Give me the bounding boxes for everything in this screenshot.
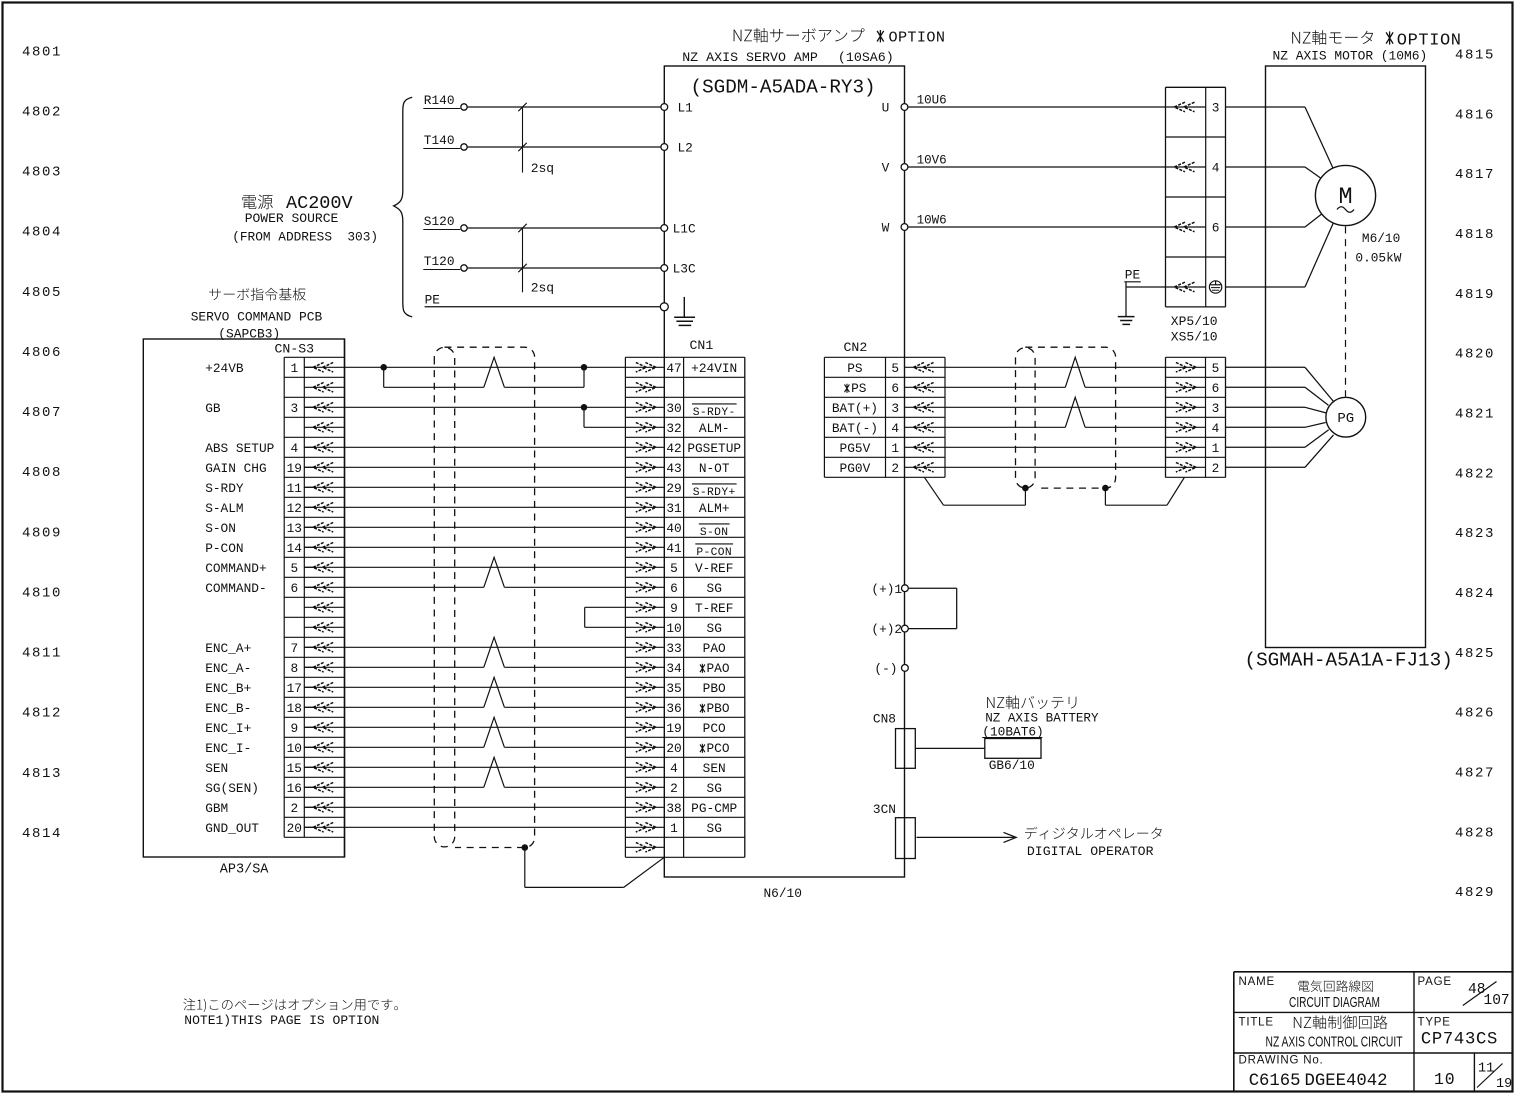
twisted pair marks right cable [1065,357,1085,387]
svg-text:4810: 4810 [22,586,62,602]
XP5 PE pin (earth symbol) [1209,281,1221,293]
CN1 arrow row 5 [636,443,656,453]
cable shield right (dashed stadium) [1016,348,1036,488]
svg-text:2: 2 [290,801,298,816]
CN-S3 arrow row 20 [313,743,333,753]
ground symbol right of amp [1125,282,1127,317]
shield wire to CN2 shell [1024,488,1026,505]
svg-text:10: 10 [1434,1070,1455,1089]
svg-text:4827: 4827 [1455,766,1495,782]
svg-text:+24VIN: +24VIN [691,361,737,376]
svg-text:POWER SOURCE: POWER SOURCE [245,211,339,226]
junction dot GB/ALM- [581,404,588,411]
CN-S3 arrow row 12 [313,583,333,593]
svg-text:107: 107 [1484,993,1510,1009]
svg-text:SERVO COMMAND PCB: SERVO COMMAND PCB [191,309,323,324]
svg-text:41: 41 [666,541,682,556]
wire 10W6 amp to XP5 [908,226,1206,228]
svg-text:5: 5 [891,361,899,376]
svg-text:4806: 4806 [22,345,62,361]
CN-S3 arrow row 14 [313,623,333,633]
svg-text:OPTION: OPTION [1397,31,1462,50]
svg-text:3: 3 [1212,101,1220,116]
amp terminal L1 [661,104,668,111]
svg-text:PE: PE [1125,268,1141,283]
svg-text:4829: 4829 [1455,885,1495,901]
svg-text:CIRCUIT DIAGRAM: CIRCUIT DIAGRAM [1289,994,1380,1011]
wire S-ALM CN-S3 to CN1 [304,506,664,508]
svg-text:PBO: PBO [707,701,730,716]
wire ALM- branch from GB [583,407,585,427]
CN1 arrow row 9 [636,523,656,533]
svg-text:2: 2 [891,461,899,476]
XP5 arrow pin 6 [1174,222,1194,232]
row labels 4801-4814 left margin [22,44,62,842]
wire PE to XP5 [1126,286,1206,288]
wire ENC_I+ CN-S3 to CN1 [304,726,664,728]
svg-text:29: 29 [666,481,681,496]
svg-text:W: W [882,221,890,236]
svg-text:L2: L2 [678,141,693,156]
svg-text:PAO: PAO [703,641,726,656]
power terminal R140 [461,104,467,110]
svg-text:6: 6 [1212,381,1220,396]
wire ENC_B- CN-S3 to CN1 [304,706,484,708]
XP5 arrow PE [1174,282,1194,292]
svg-text:SEN: SEN [205,761,228,776]
svg-text:4818: 4818 [1455,227,1495,243]
svg-text:4814: 4814 [22,826,62,842]
title block JP: circuit diagram [1298,980,1373,992]
svg-text:(+)1: (+)1 [871,582,902,597]
wire S-ON CN-S3 to CN1 [304,526,664,528]
note JP: this page is option [183,998,398,1012]
terminal block PG side [1165,357,1167,477]
PG block arrow row 5 [1176,443,1196,453]
svg-text:18: 18 [287,701,302,716]
svg-text:4: 4 [290,441,298,456]
shield junction dot left cable [522,844,529,851]
terminal block XP5/XS5 [1166,86,1226,88]
svg-text:P-CON: P-CON [696,547,732,559]
wire PG block pin 6 to PG [1226,386,1306,388]
title block [1234,971,1514,973]
svg-text:NOTE1)THIS PAGE IS OPTION: NOTE1)THIS PAGE IS OPTION [184,1013,379,1028]
svg-text:20: 20 [666,741,681,756]
wire S-RDY CN-S3 to CN1 [304,486,664,488]
svg-text:C6165: C6165 [1249,1072,1301,1091]
svg-text:ALM-: ALM- [699,421,730,436]
svg-text:ENC_I-: ENC_I- [205,741,251,756]
svg-text:NAME: NAME [1239,976,1275,988]
CN1 arrow row 15 [636,643,656,653]
wire SG(SEN) CN-S3 to CN1 [304,786,484,788]
PG block arrow row 2 [1176,383,1196,393]
wire COMMAND- CN-S3 to CN1 [304,586,484,588]
svg-text:4808: 4808 [22,465,62,481]
svg-text:34: 34 [666,661,682,676]
svg-text:PCO: PCO [707,741,730,756]
svg-text:5: 5 [670,561,678,576]
svg-text:16: 16 [287,781,302,796]
wire +24V bypass row2 [383,367,385,387]
svg-text:1: 1 [290,361,298,376]
wire +24VB CN-S3 to CN1 [304,366,664,368]
svg-text:PAGE: PAGE [1418,976,1452,988]
svg-text:1: 1 [891,441,899,456]
svg-text:3: 3 [1212,401,1220,416]
svg-text:COMMAND-: COMMAND- [205,581,266,596]
CN-S3 arrow row 10 [313,543,333,553]
battery wire CN8 to battery [915,747,985,749]
svg-text:4824: 4824 [1455,586,1495,602]
cable size mark 2sq (upper) [522,107,524,173]
CN-S3 arrow row 23 [313,803,333,813]
svg-text:NZ AXIS MOTOR (10M6): NZ AXIS MOTOR (10M6) [1273,49,1428,64]
svg-text:4811: 4811 [22,646,62,662]
svg-text:5: 5 [1212,361,1220,376]
svg-text:L1: L1 [678,101,694,116]
svg-text:13: 13 [287,521,302,536]
svg-text:7: 7 [290,641,298,656]
svg-text:6: 6 [891,381,899,396]
wire P-CON CN-S3 to CN1 [304,546,664,548]
svg-text:R140: R140 [424,93,455,108]
svg-text:TITLE: TITLE [1239,1016,1274,1028]
CN-S3 arrow row 19 [313,723,333,733]
wire ENC_A- CN-S3 to CN1 [304,666,484,668]
svg-text:SG(SEN): SG(SEN) [205,781,259,796]
svg-text:TYPE: TYPE [1418,1016,1451,1028]
CN-S3 arrow row 22 [313,783,333,793]
amp terminal (+)2 [902,625,909,632]
CN1 arrow row 20 [636,743,656,753]
amp terminal L1C [661,225,668,232]
svg-text:2: 2 [670,781,678,796]
svg-text:PS: PS [847,361,863,376]
wire 10V6 amp to XP5 [908,166,1206,168]
svg-text:47: 47 [666,361,681,376]
svg-text:DRAWING No.: DRAWING No. [1239,1054,1324,1066]
svg-text:6: 6 [670,581,678,596]
power terminal T120 [461,265,467,271]
svg-text:20: 20 [287,821,302,836]
svg-text:NZ AXIS CONTROL CIRCUIT: NZ AXIS CONTROL CIRCUIT [1266,1034,1403,1050]
svg-text:10: 10 [287,741,302,756]
CN1 arrow row 18 [636,703,656,713]
svg-text:1: 1 [670,821,678,836]
svg-text:10U6: 10U6 [917,94,947,108]
svg-text:GND_OUT: GND_OUT [205,821,259,836]
wire ABS SETUP CN-S3 to CN1 [304,446,664,448]
svg-text:4817: 4817 [1455,167,1495,183]
svg-text:S-ALM: S-ALM [205,501,243,516]
CN1 arrow row 23 [636,803,656,813]
svg-text:4: 4 [670,761,678,776]
svg-text:PG0V: PG0V [840,461,871,476]
svg-text:4813: 4813 [22,766,62,782]
svg-text:T120: T120 [424,254,455,269]
svg-text:GB6/10: GB6/10 [989,758,1035,773]
PG block arrow row 3 [1176,403,1196,413]
CN2 signal *PS pin 6 [845,384,850,393]
CN1 arrow row 2 [636,383,656,393]
svg-text:19: 19 [1496,1077,1512,1092]
amp terminal V [901,164,908,171]
dashed link motor to PG [1345,227,1347,397]
CN-S3 arrow row 13 [313,603,333,613]
svg-text:S-ON: S-ON [700,527,729,539]
svg-text:PG: PG [1337,411,1354,427]
svg-text:T140: T140 [424,133,455,148]
jumper T-REF to SG [585,606,665,608]
svg-text:4820: 4820 [1455,347,1495,363]
svg-text:3: 3 [891,401,899,416]
wire PS CN2 to XS5 [905,366,1206,368]
svg-text:2: 2 [1212,461,1220,476]
svg-text:SG: SG [707,581,722,596]
PG block arrow row 6 [1176,463,1196,473]
svg-text:GAIN CHG: GAIN CHG [205,461,266,476]
svg-text:ENC_I+: ENC_I+ [205,721,251,736]
wire GBM CN-S3 to CN1 [304,806,664,808]
svg-text:XP5/10: XP5/10 [1171,314,1218,329]
svg-text:4825: 4825 [1455,646,1495,662]
PG block arrow row 4 [1176,423,1196,433]
CN2 arrow row 1 [913,363,933,373]
CN-S3 arrow row 17 [313,683,333,693]
XP5 arrow pin 3 [1174,102,1194,112]
amp terminal L3C [661,265,668,272]
svg-text:4: 4 [1212,421,1220,436]
servo command pcb box AP3/SA [143,339,344,857]
CN-S3 arrow row 9 [313,523,333,533]
title block JP: NZ axis control circuit [1294,1015,1388,1029]
battery GB6/10 box [985,739,1041,759]
wire T140 to amp [467,146,664,148]
encoder circle PG [1326,397,1366,437]
svg-text:CN8: CN8 [873,712,896,727]
svg-text:NZ AXIS SERVO AMP: NZ AXIS SERVO AMP [682,50,818,65]
svg-text:30: 30 [666,401,681,416]
svg-text:3CN: 3CN [873,802,896,817]
svg-text:BAT(+): BAT(+) [832,401,878,416]
svg-text:2sq: 2sq [531,280,554,295]
label JP: servo command pcb [209,288,306,301]
svg-text:4822: 4822 [1455,466,1495,482]
CN1 arrow row 7 [636,483,656,493]
svg-text:4802: 4802 [22,104,62,120]
brace for power source group [394,97,413,317]
label JP: power source [242,195,272,210]
CN1 arrow row 21 [636,763,656,773]
CN-S3 arrow row 21 [313,763,333,773]
wire PG5V CN2 to XS5 [905,446,1206,448]
svg-text:N-OT: N-OT [699,461,730,476]
svg-text:4809: 4809 [22,525,62,541]
svg-text:ENC_A+: ENC_A+ [205,641,251,656]
CN1 arrow row 13 [636,603,656,613]
svg-text:5: 5 [290,561,298,576]
svg-text:DGEE4042: DGEE4042 [1305,1072,1388,1091]
wire GND_OUT CN-S3 to CN1 [304,826,664,828]
svg-text:32: 32 [666,421,681,436]
wire 10U6 amp to XP5 [908,106,1206,108]
PG block arrow row 1 [1176,363,1196,373]
svg-text:PG5V: PG5V [840,441,871,456]
wire COMMAND+ CN-S3 to CN1 [304,566,664,568]
svg-text:9: 9 [670,601,678,616]
svg-text:33: 33 [666,641,681,656]
svg-text:8: 8 [290,661,298,676]
svg-text:19: 19 [666,721,681,736]
CN1 arrow row 12 [636,583,656,593]
svg-text:9: 9 [290,721,298,736]
svg-text:DIGITAL OPERATOR: DIGITAL OPERATOR [1027,844,1154,859]
wire GB CN-S3 to CN1 [304,406,664,408]
wire BAT(+) CN2 to XS5 [905,406,1206,408]
wire SEN CN-S3 to CN1 [304,766,664,768]
ground symbol inside amp [683,297,685,317]
svg-text:GB: GB [205,401,221,416]
svg-text:L3C: L3C [673,262,696,277]
title JP: NZ axis servo amp [734,28,865,43]
svg-text:(10SA6): (10SA6) [838,50,894,65]
svg-text:PS: PS [851,381,867,396]
svg-text:4807: 4807 [22,405,62,421]
svg-text:4823: 4823 [1455,526,1495,542]
svg-text:1: 1 [1212,441,1220,456]
svg-text:11: 11 [287,481,303,496]
shield ground wire to CN1 shell [524,848,526,888]
CN-S3 arrow row 24 [313,823,333,833]
svg-text:ALM+: ALM+ [699,501,730,516]
svg-text:ENC_B+: ENC_B+ [205,681,251,696]
wire ENC_I- CN-S3 to CN1 [304,746,484,748]
svg-text:NZ AXIS BATTERY: NZ AXIS BATTERY [985,712,1099,726]
CN1 arrow row 3 [636,403,656,413]
CN-S3 arrow row 6 [313,463,333,473]
junction dots +24V [380,364,387,371]
svg-text:S120: S120 [424,214,455,229]
wire PG0V CN2 to XS5 [905,466,1206,468]
star before OPTION (left title) [877,30,884,42]
svg-text:10V6: 10V6 [917,154,947,168]
CN1 arrow row 25 [636,843,656,853]
CN1 arrow row 10 [636,543,656,553]
svg-text:ABS SETUP: ABS SETUP [205,441,274,456]
CN-S3 arrow row 8 [313,503,333,513]
svg-text:14: 14 [287,541,303,556]
svg-text:PCO: PCO [703,721,726,736]
CN-S3 arrow row 11 [313,563,333,573]
svg-text:U: U [882,101,890,116]
connector CN8 [896,729,916,769]
CN-S3 arrow row 5 [313,443,333,453]
wire S120 to amp [467,227,664,229]
svg-text:PBO: PBO [703,681,726,696]
svg-text:4828: 4828 [1455,825,1495,841]
power terminal T140 [461,144,467,150]
CN2 arrow row 4 [913,423,933,433]
svg-text:S-RDY-: S-RDY- [693,407,736,419]
connector CN-S3 table [283,357,285,837]
svg-text:PGSETUP: PGSETUP [687,441,741,456]
cable size mark 2sq (lower) [522,228,524,292]
CN-S3 arrow row 4 [313,423,333,433]
svg-text:40: 40 [666,521,681,536]
motor box (10M6) [1266,66,1426,648]
svg-text:12: 12 [287,501,302,516]
wire ENC_B+ CN-S3 to CN1 [304,686,664,688]
svg-text:4816: 4816 [1455,107,1495,123]
svg-text:M6/10: M6/10 [1362,231,1400,246]
svg-text:BAT(-): BAT(-) [832,421,878,436]
svg-text:10: 10 [666,621,681,636]
svg-text:GBM: GBM [205,801,228,816]
CN1 arrow row 17 [636,683,656,693]
svg-text:4: 4 [891,421,899,436]
svg-text:SG: SG [707,781,722,796]
svg-text:4812: 4812 [22,706,62,722]
svg-text:OPTION: OPTION [889,29,946,47]
connector 3CN [896,818,916,859]
svg-text:V-REF: V-REF [695,561,733,576]
svg-text:CN-S3: CN-S3 [275,342,315,357]
svg-text:15: 15 [287,761,302,776]
CN1 arrow row 16 [636,663,656,673]
CN-S3 arrow row 2 [313,383,333,393]
svg-text:XS5/10: XS5/10 [1171,330,1218,345]
svg-text:35: 35 [666,681,681,696]
svg-text:CP743CS: CP743CS [1421,1031,1498,1050]
svg-text:COMMAND+: COMMAND+ [205,561,266,576]
CN2 arrow row 3 [913,403,933,413]
svg-text:31: 31 [666,501,682,516]
CN2 arrow row 2 [913,383,933,393]
amp terminal (+)1 [908,587,956,589]
CN2 arrow row 6 [913,463,933,473]
amp terminal PE [660,303,668,311]
wire R140 to amp [467,106,664,108]
amp terminal L2 [661,144,668,151]
amp terminal W [901,224,908,231]
connector CN1 table [624,357,626,857]
cable shield left (dashed stadium) [434,347,454,847]
svg-text:4819: 4819 [1455,287,1495,303]
CN-S3 arrow row 3 [313,403,333,413]
svg-text:4821: 4821 [1455,407,1495,423]
svg-text:4: 4 [1212,161,1220,176]
svg-text:L1C: L1C [673,222,696,237]
svg-text:S-ON: S-ON [205,521,236,536]
svg-text:PG-CMP: PG-CMP [691,801,737,816]
CN1 arrow row 1 [636,363,656,373]
CN1 arrow row 22 [636,783,656,793]
amp terminal (-) [902,665,909,672]
CN1 arrow row 24 [636,823,656,833]
cable shield left outer (dashed) [445,347,535,847]
svg-text:(SGDM-A5ADA-RY3): (SGDM-A5ADA-RY3) [691,76,876,98]
svg-text:PAO: PAO [707,661,730,676]
svg-text:10W6: 10W6 [917,214,947,228]
svg-text:6: 6 [290,581,298,596]
row labels 4815-4829 right margin [1455,48,1495,902]
svg-text:V: V [882,161,890,176]
svg-text:ENC_B-: ENC_B- [205,701,251,716]
svg-text:38: 38 [666,801,681,816]
CN1 arrow row 8 [636,503,656,513]
